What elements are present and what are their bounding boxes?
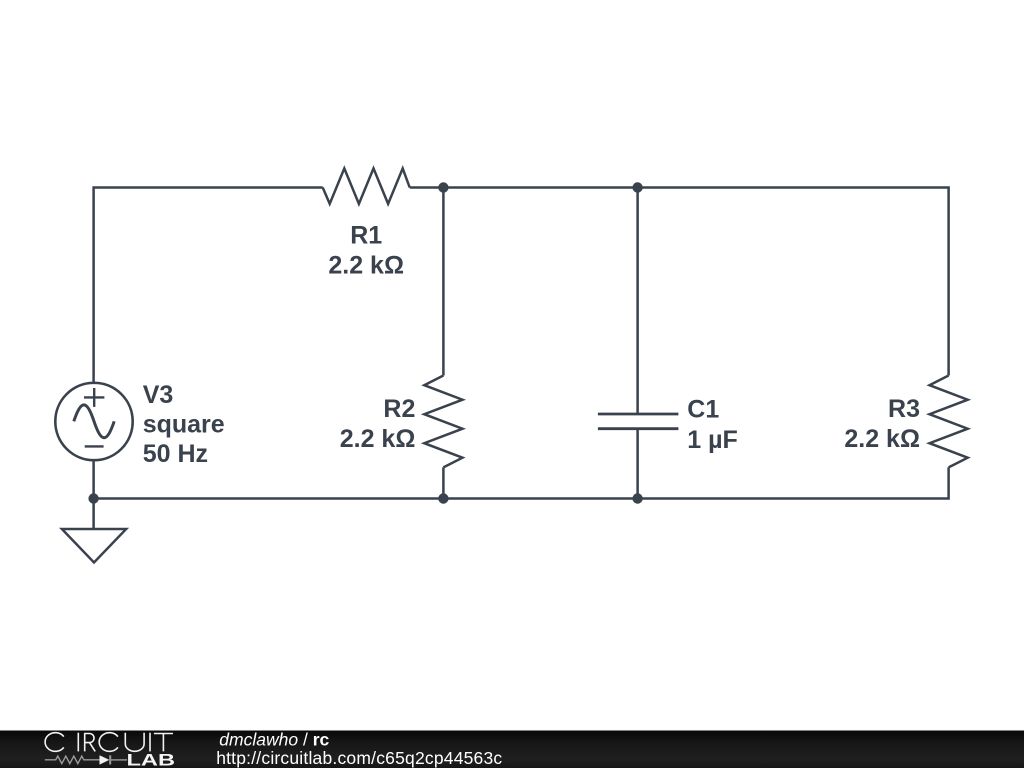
svg-text:2.2 kΩ: 2.2 kΩ <box>340 425 416 453</box>
svg-text:50 Hz: 50 Hz <box>143 440 208 468</box>
resistor R1 <box>323 168 410 203</box>
wire: V3 minus terminal down to ground node <box>92 460 95 529</box>
resistor R2 <box>424 376 462 468</box>
wire: R1 right lead to node A <box>410 186 444 189</box>
junction: C1 bottom on bottom bus <box>632 493 642 503</box>
CircuitLab logo word CIRCUIT <box>45 733 173 752</box>
wire: R2 top lead from node A <box>442 188 445 376</box>
svg-text:R2: R2 <box>383 395 415 423</box>
wire: C1 top lead from node B <box>636 188 639 415</box>
wire: V3 plus terminal up and across to R1 left lead <box>94 188 323 383</box>
junction node B (C1 top) <box>632 182 642 192</box>
svg-text:dmclawho / rc: dmclawho / rc <box>219 729 329 749</box>
svg-text:R3: R3 <box>888 395 920 423</box>
svg-text:http://circuitlab.com/c65q2cp4: http://circuitlab.com/c65q2cp44563c <box>216 748 502 768</box>
capacitor C1 bottom plate <box>598 427 679 430</box>
V3 sine wave symbol <box>74 405 114 438</box>
wire: R2 bottom lead to bottom bus <box>442 467 445 498</box>
junction: ground node on bottom bus <box>88 493 98 503</box>
ground symbol <box>62 529 126 563</box>
CircuitLab logo diode triangle <box>100 755 110 764</box>
voltage source V3 circle <box>55 383 132 460</box>
svg-text:2.2 kΩ: 2.2 kΩ <box>328 252 404 280</box>
wire: C1 bottom lead to bottom bus <box>636 429 639 499</box>
V3 plus sign <box>84 388 104 407</box>
svg-text:square: square <box>143 411 225 439</box>
svg-text:V3: V3 <box>143 381 174 409</box>
junction node A (R1/R2 top) <box>438 182 448 192</box>
wire: node B to top-right corner down to R3 top lead <box>638 188 949 376</box>
wire: R3 bottom lead to bottom bus <box>638 467 949 498</box>
svg-text:R1: R1 <box>350 221 382 249</box>
capacitor C1 top plate <box>598 413 679 416</box>
resistor R3 <box>930 376 968 468</box>
wire: bottom bus from ground node to C1 bottom node <box>94 497 638 500</box>
junction: R2 bottom on bottom bus <box>438 493 448 503</box>
wire: node A to node B <box>443 186 637 189</box>
V3 minus sign <box>85 445 104 447</box>
svg-text:C1: C1 <box>687 395 719 423</box>
CircuitLab logo mini schematic (resistor + diode) <box>45 755 127 764</box>
svg-text:LAB: LAB <box>127 752 176 768</box>
svg-text:2.2 kΩ: 2.2 kΩ <box>844 425 920 453</box>
svg-text:1 µF: 1 µF <box>687 426 738 454</box>
